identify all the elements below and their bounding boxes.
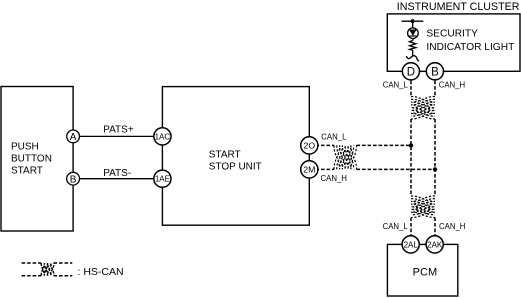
wire PATS+ A to 1AC bbox=[73, 135, 162, 137]
svg-text:PATS+: PATS+ bbox=[103, 124, 134, 135]
connector pin A bbox=[67, 130, 80, 143]
twisted pair braid vertical upper bbox=[411, 97, 435, 120]
svg-text:2AL: 2AL bbox=[404, 240, 419, 249]
twisted pair braid horizontal bbox=[334, 145, 357, 169]
legend HS-CAN symbol bbox=[22, 263, 73, 276]
junction dot CAN_L bbox=[409, 143, 413, 147]
node bar bbox=[402, 20, 424, 22]
svg-text:CAN_H: CAN_H bbox=[439, 80, 465, 89]
svg-text:CAN_L: CAN_L bbox=[383, 80, 409, 89]
box PUSH BUTTON START bbox=[1, 87, 73, 232]
svg-text:INSTRUMENT CLUSTER: INSTRUMENT CLUSTER bbox=[397, 1, 520, 13]
connector pin 2AL bbox=[402, 236, 419, 253]
wire CAN_L 2O to junction bbox=[310, 144, 411, 146]
svg-text:PCM: PCM bbox=[413, 266, 437, 278]
svg-text:B: B bbox=[70, 174, 77, 185]
junction dot CAN_H bbox=[433, 167, 437, 171]
svg-text:CAN_H: CAN_H bbox=[439, 222, 465, 231]
squiggle connector bbox=[406, 56, 419, 61]
svg-text:CAN_L: CAN_L bbox=[321, 132, 347, 141]
connector pin 1AC bbox=[154, 128, 171, 145]
svg-text:1AE: 1AE bbox=[155, 175, 170, 184]
twisted pair braid vertical lower bbox=[411, 196, 435, 218]
box START STOP UNIT bbox=[162, 87, 309, 226]
svg-text:A: A bbox=[70, 132, 77, 143]
box INSTRUMENT CLUSTER bbox=[387, 14, 520, 71]
connector pin 2O bbox=[301, 137, 318, 154]
svg-text:PATS-: PATS- bbox=[103, 168, 131, 179]
security indicator lamp assembly bbox=[402, 21, 424, 61]
svg-text:CAN_L: CAN_L bbox=[383, 222, 409, 231]
svg-text:PUSH: PUSH bbox=[11, 141, 39, 152]
LED triangle bbox=[409, 30, 417, 36]
svg-text:2AK: 2AK bbox=[427, 240, 443, 249]
svg-text:STOP UNIT: STOP UNIT bbox=[209, 161, 262, 172]
LED lamp bbox=[408, 28, 419, 39]
box PCM bbox=[387, 244, 457, 296]
svg-text:SECURITY: SECURITY bbox=[426, 29, 478, 40]
wire CAN_H 2M to junction bbox=[310, 168, 435, 170]
wire CAN_H vertical B to 2AK bbox=[434, 81, 436, 236]
svg-text:: HS-CAN: : HS-CAN bbox=[78, 266, 124, 278]
wire CAN_L vertical D to 2AL bbox=[410, 81, 412, 236]
resistor bbox=[410, 41, 416, 57]
svg-text:B: B bbox=[431, 66, 439, 78]
svg-text:CAN_H: CAN_H bbox=[321, 174, 347, 183]
connector pin B bbox=[67, 172, 80, 185]
svg-text:BUTTON: BUTTON bbox=[11, 153, 52, 164]
connector pin 2M bbox=[301, 161, 318, 178]
connector pin D bbox=[402, 63, 419, 80]
svg-text:2O: 2O bbox=[304, 141, 316, 151]
svg-text:1AC: 1AC bbox=[155, 132, 171, 141]
svg-text:START: START bbox=[209, 149, 241, 160]
svg-text:D: D bbox=[407, 66, 415, 78]
connector pin 2AK bbox=[426, 236, 443, 253]
connector pin 1AE bbox=[154, 170, 171, 187]
svg-text:INDICATOR LIGHT: INDICATOR LIGHT bbox=[426, 42, 514, 53]
connector pin B cluster bbox=[426, 63, 443, 80]
svg-text:START: START bbox=[11, 165, 43, 176]
wire PATS- B to 1AE bbox=[73, 178, 162, 180]
svg-text:2M: 2M bbox=[303, 165, 315, 175]
